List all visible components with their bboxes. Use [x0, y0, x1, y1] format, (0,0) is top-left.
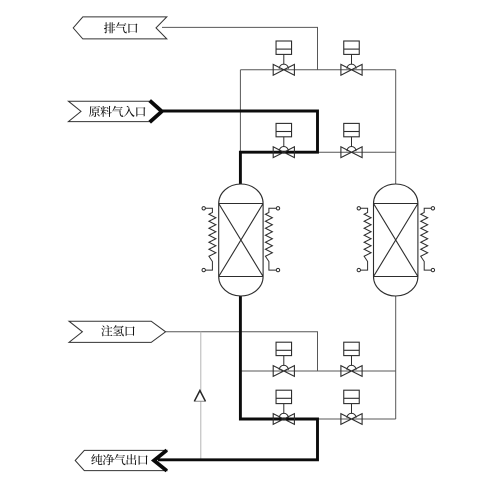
valve V3 dome: [279, 147, 288, 152]
control valve V5 actuator box: [276, 342, 292, 355]
heater coil T1 left: [202, 207, 216, 272]
pipe: tower T1 top riser (row1 to row2): [239, 70, 241, 152]
control valve V6 actuator box: [344, 342, 360, 355]
pipe: exhaust header from banner to tee: [162, 27, 318, 69]
bold arrowhead into outlet banner: [154, 450, 167, 471]
valve V7 body (bowtie): [273, 414, 294, 425]
valve V2 body (bowtie): [341, 64, 362, 75]
valve V6 stem: [351, 356, 353, 366]
banner: exhaust port 排气口: [73, 17, 167, 39]
valve V8 stem: [351, 404, 353, 414]
valve V8 body (bowtie): [341, 414, 362, 425]
control valve V2 actuator box: [344, 41, 360, 54]
banner: product gas outlet 纯净气出口: [75, 450, 167, 470]
valve V1 body (bowtie): [273, 64, 294, 75]
control valve V8 actuator box: [344, 390, 360, 403]
valve V4 stem: [351, 137, 353, 147]
valve V2 stem: [351, 54, 353, 64]
control valve V3 actuator box: [276, 123, 292, 136]
valve V7 dome: [279, 413, 288, 418]
valve V4 body (bowtie): [341, 147, 362, 158]
valve V5 body (bowtie): [273, 366, 294, 377]
pipe: tower T2 bottom riser: [395, 296, 397, 419]
heater coil T2 left: [357, 207, 371, 272]
pipe: hydrogen line from banner to tee: [166, 332, 318, 371]
pipe: top valve row 1 header: [240, 69, 395, 71]
banner: hydrogen inject port 注氢口: [69, 321, 166, 342]
valve V6 body (bowtie): [341, 366, 362, 377]
vessel T2 bed lines and X packing: [374, 204, 418, 277]
adsorber vessel T1 shell: [219, 184, 263, 296]
label text: 注氢口: [101, 325, 134, 336]
flow arrow on purge line (up): [194, 391, 205, 402]
valve V1 stem: [283, 54, 285, 64]
control valve V4 actuator box: [344, 123, 360, 136]
pipe: valve row 3 header: [240, 370, 395, 372]
valve V3 body (bowtie): [273, 147, 294, 158]
valve V5 dome: [279, 365, 288, 370]
pipe: row 4 header right half: [318, 418, 396, 420]
vessel T1 bed lines and X packing: [219, 204, 263, 277]
banner: raw gas inlet 原料气入口: [68, 101, 162, 121]
adsorber vessel T2 shell: [374, 184, 418, 296]
pipe: tower T2 top riser: [395, 70, 397, 185]
pipe (bold): feed gas path from inlet banner to tower T1 top: [161, 111, 318, 185]
label text: 原料气入口: [89, 106, 145, 117]
valve V6 dome: [347, 365, 356, 370]
pipe: purge bypass line (light): [200, 332, 202, 460]
pipe (bold): product path from tower T1 bottom to outlet banner: [158, 296, 318, 460]
valve V1 dome: [279, 64, 288, 69]
bold arrowhead on inlet banner: [150, 101, 162, 123]
valve V2 dome: [347, 64, 356, 69]
control valve V1 actuator box: [276, 41, 292, 54]
heater coil T2 right: [421, 207, 435, 272]
valve V7 stem: [283, 404, 285, 414]
label text: 排气口: [104, 22, 138, 33]
valve V3 stem: [283, 137, 285, 147]
label text: 纯净气出口: [91, 454, 147, 465]
control valve V7 actuator box: [276, 390, 292, 403]
pipe: row 2 header right half: [318, 151, 396, 153]
valve V8 dome: [347, 413, 356, 418]
valve V4 dome: [347, 146, 356, 151]
heater coil T1 right: [265, 207, 279, 272]
valve V5 stem: [283, 356, 285, 366]
